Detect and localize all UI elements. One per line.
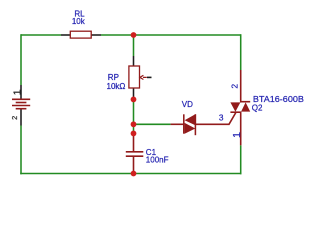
capacitor C1 pin top [133,133,135,151]
wire top-left to RL [21,34,61,36]
diac VD pin left [171,123,184,125]
svg-text:100nF: 100nF [146,155,169,164]
junction node C1 top [131,131,137,137]
battery plate short 2 [16,108,27,110]
resistor RL pin 2 [91,34,101,36]
resistor RL body [70,31,91,38]
junction node C1 bottom [131,171,137,177]
wire left vertical lower [20,126,22,175]
junction node at RL/RP top [131,32,137,38]
triac Q2 left triangle [230,102,240,111]
diac VD right bar [194,114,196,135]
wire right vertical lower [240,145,242,174]
wire branch to diac [134,123,171,125]
battery plate long 1 [12,98,30,100]
battery BT pin 2 (bottom) [20,109,22,126]
svg-text:3: 3 [219,113,224,123]
diac VD top triangle [185,114,196,125]
svg-text:10k: 10k [72,17,86,26]
potentiometer RP body [129,66,140,88]
junction node below RP [131,97,137,103]
svg-text:10kΩ: 10kΩ [107,82,126,91]
wire RL to top-right corner [101,34,241,36]
triac Q2 right triangle [241,102,250,111]
capacitor C1 plate top [126,151,144,153]
potentiometer RP pin top [133,56,135,66]
diac VD bottom triangle [185,123,196,134]
svg-text:VD: VD [182,100,193,109]
potentiometer RP pin bottom [133,88,135,99]
junction node branch to diac [131,121,137,127]
wire left vertical upper [20,34,22,85]
svg-text:RP: RP [108,73,119,82]
triac Q2 pin 2 lead [240,70,242,102]
wire middle vertical top (junction to RP) [133,35,135,56]
svg-text:1: 1 [231,132,243,138]
svg-text:1: 1 [12,89,24,95]
wire middle vertical (RP to C1) [133,99,135,133]
battery plate long 2 [12,105,30,107]
wire right vertical upper [240,34,242,70]
battery BT pin 1 (top) [20,85,22,99]
diac VD pin right / gate wire [196,113,236,125]
resistor RL pin 1 [61,34,71,36]
svg-text:2: 2 [230,84,240,89]
battery plate short 1 [16,102,27,104]
triac Q2 bottom bar [230,111,241,113]
svg-text:2: 2 [10,116,19,120]
wire bottom [20,173,241,175]
diac VD left bar [183,114,185,133]
potentiometer RP wiper arrow [140,75,147,79]
potentiometer RP wiper pin stub [147,76,152,78]
capacitor C1 pin bottom [133,157,135,174]
capacitor C1 plate bottom [126,155,144,157]
triac Q2 top bar [240,101,250,103]
svg-text:Q2: Q2 [252,103,263,112]
triac Q2 pin 1 lead [240,112,242,145]
